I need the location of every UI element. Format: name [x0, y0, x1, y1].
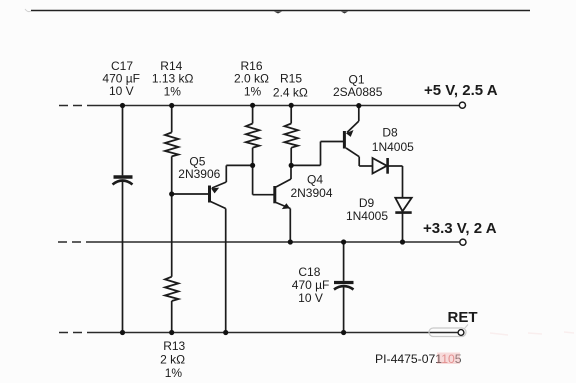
svg-text:RET: RET	[448, 309, 478, 326]
svg-text:+3.3 V, 2 A: +3.3 V, 2 A	[423, 220, 497, 237]
svg-text:1%: 1%	[165, 366, 183, 380]
svg-text:1N4005: 1N4005	[346, 209, 388, 223]
svg-text:+5 V, 2.5 A: +5 V, 2.5 A	[424, 82, 498, 99]
svg-text:R15: R15	[280, 72, 302, 86]
svg-text:Q4: Q4	[307, 172, 323, 186]
svg-text:R13: R13	[163, 339, 185, 353]
svg-text:2.4 kΩ: 2.4 kΩ	[273, 86, 308, 100]
svg-text:2 kΩ: 2 kΩ	[160, 352, 185, 366]
svg-text:1%: 1%	[164, 85, 182, 99]
svg-text:10 V: 10 V	[298, 291, 323, 305]
svg-text:1N4005: 1N4005	[372, 140, 414, 154]
svg-text:D8: D8	[382, 125, 398, 139]
svg-text:2N3906: 2N3906	[178, 167, 220, 181]
svg-text:470 µF: 470 µF	[292, 278, 330, 292]
svg-text:2N3904: 2N3904	[290, 186, 332, 200]
svg-text:2SA0885: 2SA0885	[333, 85, 383, 99]
svg-text:1%: 1%	[244, 85, 262, 99]
svg-text:10 V: 10 V	[109, 84, 134, 98]
